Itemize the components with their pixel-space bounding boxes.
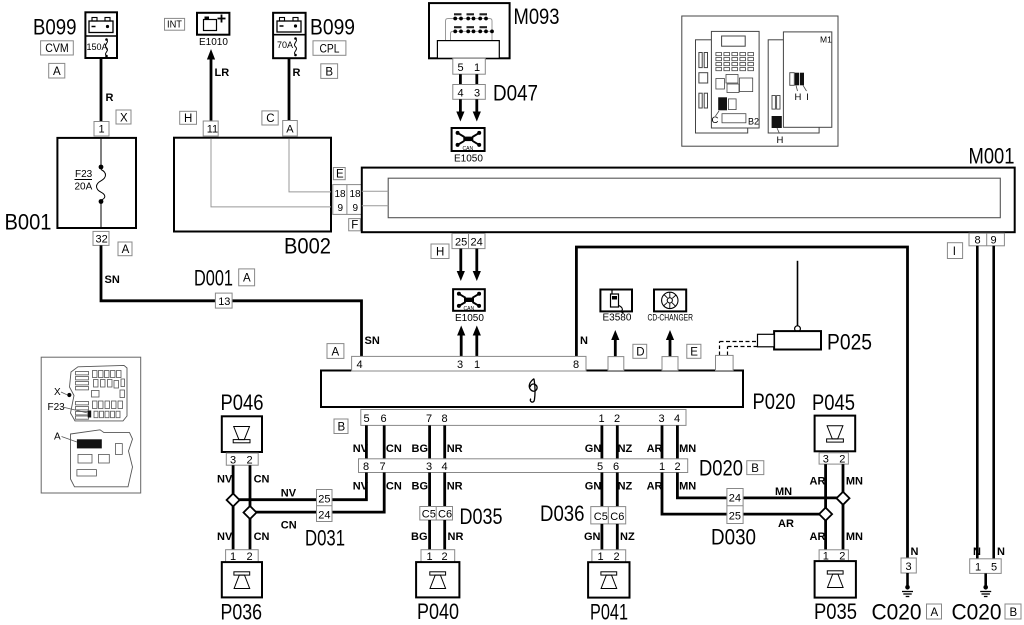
svg-text:CAN: CAN: [464, 306, 475, 312]
svg-text:20A: 20A: [75, 182, 93, 193]
svg-text:B2: B2: [748, 117, 759, 127]
svg-text:R: R: [293, 67, 301, 79]
svg-text:5: 5: [364, 413, 370, 425]
wire GN (D020 to C5): [601, 473, 604, 507]
svg-text:E1050: E1050: [454, 154, 483, 165]
pins 3/2 (P045): [819, 453, 848, 466]
wire NZ (D020 to C6): [616, 473, 619, 507]
battery B099 (CVM): [85, 12, 117, 58]
svg-text:N: N: [911, 546, 919, 558]
svg-text:5: 5: [458, 62, 464, 74]
label box INT: [165, 18, 185, 30]
label box C: [262, 111, 278, 125]
svg-text:GN: GN: [584, 531, 601, 543]
CD-CHANGER icon: [648, 290, 694, 324]
wire NZ (P020 B2 to D020 6): [616, 425, 619, 458]
wire BG (D020 to C5): [428, 473, 431, 507]
svg-text:70A: 70A: [277, 40, 293, 50]
svg-text:C6: C6: [610, 511, 624, 523]
P020 connector B row: [361, 410, 686, 426]
pin A (B002): [283, 121, 298, 137]
svg-text:CN: CN: [254, 531, 270, 543]
svg-text:C: C: [712, 115, 719, 126]
svg-text:AR: AR: [647, 481, 663, 493]
svg-text:3: 3: [230, 454, 236, 466]
label box CPL: [313, 41, 346, 56]
pin 32 (B001): [93, 231, 109, 245]
wire CN (P046 to P036): [249, 465, 252, 550]
svg-text:18: 18: [350, 189, 362, 200]
svg-text:H: H: [795, 92, 802, 103]
label box X: [116, 110, 131, 124]
wire MN (P020 B4 to D020 2): [676, 425, 679, 458]
svg-text:C5: C5: [594, 511, 608, 523]
P020 connector A row: [352, 356, 586, 371]
wire arrow M001 to E1050: [473, 249, 481, 281]
svg-text:SN: SN: [365, 335, 380, 347]
svg-text:AR: AR: [647, 443, 663, 455]
svg-text:N: N: [997, 546, 1005, 558]
svg-text:32: 32: [96, 234, 108, 246]
svg-text:4: 4: [674, 413, 680, 425]
svg-text:NV: NV: [353, 443, 369, 455]
wire (1 to 3): [475, 74, 478, 84]
svg-text:CVM: CVM: [45, 43, 68, 55]
label box D: [633, 344, 647, 358]
svg-text:INT: INT: [167, 20, 182, 31]
svg-text:MN: MN: [775, 486, 792, 498]
wire arrow P020 to E1050: [457, 326, 465, 357]
svg-text:3: 3: [823, 453, 829, 465]
label box F: [349, 219, 361, 232]
svg-text:B001: B001: [5, 210, 52, 235]
svg-text:AR: AR: [778, 518, 794, 530]
pins 8/9 (M001 right): [969, 233, 1004, 246]
svg-text:D020: D020: [699, 456, 743, 481]
svg-text:R: R: [106, 92, 114, 104]
location inset (dashboard): [682, 16, 838, 146]
wire arrow to E3580: [611, 330, 619, 357]
wire NR (C6 to P040): [443, 520, 446, 550]
svg-text:AR: AR: [810, 531, 826, 543]
svg-text:M001: M001: [969, 144, 1015, 169]
svg-text:B: B: [751, 463, 759, 475]
ECU B002: [174, 138, 331, 232]
wire SN: [101, 245, 362, 356]
svg-text:2: 2: [614, 551, 620, 563]
svg-text:9: 9: [991, 235, 997, 247]
svg-text:H: H: [184, 113, 192, 125]
svg-text:P025: P025: [827, 330, 872, 355]
wire arrow M001 to E1050: [457, 249, 465, 281]
svg-text:D001: D001: [194, 266, 233, 291]
radio P020: [321, 371, 743, 408]
svg-text:MN: MN: [846, 476, 863, 488]
svg-text:H: H: [436, 247, 444, 259]
svg-text:B099: B099: [33, 15, 77, 40]
connector D036 C5/C6: [591, 507, 626, 524]
wire NR (D020 to C6): [443, 473, 446, 507]
svg-text:25: 25: [455, 236, 467, 248]
svg-text:E1010: E1010: [199, 37, 228, 48]
svg-text:M1: M1: [820, 35, 832, 45]
svg-text:H: H: [777, 135, 784, 146]
connector strip D020: [359, 459, 688, 473]
svg-text:E1050: E1050: [455, 313, 484, 324]
ECU M001: [362, 168, 1015, 233]
wire AR (D020 to junction): [662, 473, 826, 515]
svg-text:A: A: [332, 346, 340, 358]
svg-text:5: 5: [991, 561, 997, 573]
pin 11 (B002): [203, 121, 218, 136]
svg-text:B: B: [338, 422, 346, 434]
svg-text:8: 8: [975, 235, 981, 247]
svg-text:X: X: [120, 112, 128, 124]
pins 1/2 (P036): [226, 550, 259, 563]
connector D047 pins 4/3: [453, 85, 486, 100]
pins 1/2 (P040): [421, 550, 455, 563]
svg-text:24: 24: [318, 509, 330, 521]
svg-text:SN: SN: [105, 274, 120, 286]
svg-text:MN: MN: [679, 443, 696, 455]
svg-text:I: I: [806, 92, 809, 103]
svg-text:3: 3: [457, 359, 463, 371]
fusebox B001: [57, 138, 136, 228]
svg-text:P020: P020: [753, 389, 796, 414]
label box A (near P020 pin 4): [327, 344, 344, 359]
label box CVM: [41, 41, 74, 55]
wire AR (P045 to P035): [824, 464, 827, 550]
svg-text:2: 2: [675, 461, 681, 473]
label box E: [333, 168, 345, 181]
svg-text:NV: NV: [217, 531, 233, 543]
svg-text:9: 9: [338, 203, 344, 214]
svg-text:A: A: [243, 273, 251, 285]
junction (AR): [819, 508, 832, 521]
label box A: [239, 269, 255, 286]
svg-text:D036: D036: [540, 501, 585, 526]
svg-text:BG: BG: [412, 481, 429, 493]
svg-text:M093: M093: [514, 4, 560, 29]
svg-text:4: 4: [458, 87, 464, 99]
connector D030 pins 24/25: [727, 489, 743, 524]
svg-text:N: N: [973, 546, 981, 558]
svg-text:AR: AR: [810, 476, 826, 488]
svg-text:6: 6: [613, 461, 619, 473]
svg-text:NV: NV: [281, 487, 297, 499]
svg-text:GN: GN: [585, 481, 602, 493]
svg-text:B: B: [325, 66, 333, 78]
svg-text:24: 24: [471, 236, 483, 248]
svg-text:E3580: E3580: [603, 313, 632, 324]
svg-text:18: 18: [335, 189, 347, 200]
svg-text:CAN: CAN: [463, 146, 474, 152]
wire labels row1: [353, 443, 697, 455]
wire CN (P020 B6 to D020 7): [383, 425, 386, 458]
connector M093: [429, 3, 510, 58]
svg-text:2: 2: [614, 413, 620, 425]
svg-text:BG: BG: [412, 443, 429, 455]
wire MN (P045 to P035): [842, 464, 845, 550]
ground point E1010: [197, 13, 229, 48]
pin 1 (B001): [94, 122, 109, 137]
svg-text:150A: 150A: [87, 42, 108, 52]
svg-text:CD-CHANGER: CD-CHANGER: [648, 313, 694, 324]
svg-text:8: 8: [573, 359, 579, 371]
pins 1/2 (P041): [592, 550, 626, 563]
svg-text:3: 3: [906, 561, 912, 573]
svg-text:C020: C020: [872, 600, 922, 625]
svg-text:D: D: [636, 347, 644, 359]
svg-text:4: 4: [442, 461, 448, 473]
svg-text:8: 8: [442, 413, 448, 425]
svg-text:13: 13: [218, 296, 230, 308]
svg-text:NV: NV: [217, 474, 233, 486]
wire N (P020 pin8 to C020 A): [576, 247, 907, 558]
speaker P041: [588, 562, 629, 597]
svg-text:X: X: [54, 387, 61, 398]
svg-text:E: E: [336, 169, 344, 181]
svg-text:NR: NR: [447, 481, 463, 493]
junction (CN): [244, 506, 257, 519]
speaker P035: [815, 561, 856, 598]
wire arrow to E1050: [473, 99, 481, 121]
svg-text:NR: NR: [447, 443, 463, 455]
svg-text:CPL: CPL: [320, 43, 341, 55]
location inset (fusebox): [41, 357, 141, 493]
tweeter P045: [815, 416, 856, 452]
svg-text:1: 1: [99, 124, 105, 136]
svg-text:MN: MN: [846, 531, 863, 543]
svg-text:25: 25: [318, 493, 330, 505]
wire NZ (C6 to P041): [616, 524, 619, 550]
svg-text:B: B: [1010, 607, 1018, 619]
wire (M001 pin8 to C020 B pin1): [976, 246, 979, 559]
svg-text:7: 7: [426, 413, 432, 425]
svg-text:D047: D047: [493, 81, 538, 106]
wire GN (C5 to P041): [601, 524, 604, 550]
wire NV (P020 B5 to D020 8): [365, 425, 368, 458]
pins 3/2 (P046): [226, 453, 258, 466]
svg-text:NZ: NZ: [618, 443, 633, 455]
svg-text:1: 1: [598, 551, 604, 563]
label box B: [321, 64, 338, 79]
pins 5/1 (M093): [453, 58, 486, 74]
svg-text:A: A: [122, 244, 130, 256]
svg-text:P040: P040: [417, 599, 459, 624]
svg-text:B099: B099: [310, 15, 355, 40]
label box B: [334, 419, 348, 434]
wire (5 to 4): [459, 74, 462, 84]
svg-text:P045: P045: [812, 390, 855, 415]
label box E: [687, 344, 701, 358]
svg-text:3: 3: [474, 87, 480, 99]
svg-text:2: 2: [839, 453, 845, 465]
svg-text:1: 1: [975, 561, 981, 573]
wire (M001 pin9 to C020 B pin5): [992, 246, 995, 559]
svg-text:CN: CN: [386, 481, 402, 493]
svg-text:A: A: [931, 607, 939, 619]
svg-text:C020: C020: [952, 600, 1002, 625]
speaker P036: [222, 562, 262, 597]
svg-text:CN: CN: [254, 474, 270, 486]
connector D031 pins 25/24: [317, 490, 333, 522]
wire R: [288, 58, 291, 120]
wire arrow P020 to E1050: [473, 326, 481, 357]
svg-text:CN: CN: [386, 443, 402, 455]
svg-text:D035: D035: [460, 504, 503, 529]
label box A: [118, 242, 132, 256]
connector D035 C5/C6: [420, 507, 453, 521]
pins 25/24 (M001): [452, 234, 485, 249]
svg-text:8: 8: [363, 461, 369, 473]
svg-text:D030: D030: [711, 525, 756, 550]
svg-text:3: 3: [426, 461, 432, 473]
svg-text:I: I: [953, 246, 956, 258]
svg-text:11: 11: [207, 124, 218, 136]
P020 stub D: [608, 357, 624, 371]
svg-text:C6: C6: [438, 508, 452, 520]
svg-text:P046: P046: [221, 390, 264, 415]
label box H: [180, 111, 197, 125]
CAN node E1050 (middle): [453, 289, 485, 324]
label box I: [947, 243, 962, 259]
wire NV (P046 to P036): [232, 465, 235, 550]
svg-text:3: 3: [659, 413, 665, 425]
wire R: [100, 58, 103, 122]
wire arrow to E1050: [456, 99, 464, 121]
svg-text:F: F: [351, 220, 358, 232]
svg-text:C5: C5: [422, 508, 436, 520]
wire LR with arrow to E1010: [210, 58, 213, 121]
svg-text:A: A: [53, 66, 61, 78]
svg-text:D031: D031: [305, 526, 345, 551]
svg-text:BG: BG: [411, 531, 428, 543]
svg-text:9: 9: [353, 203, 359, 214]
svg-text:MN: MN: [679, 481, 696, 493]
svg-text:24: 24: [729, 493, 741, 505]
svg-text:P041: P041: [590, 600, 628, 625]
svg-text:1: 1: [474, 62, 480, 74]
svg-text:NR: NR: [448, 531, 464, 543]
svg-text:NZ: NZ: [618, 481, 633, 493]
phone module E3580: [600, 290, 632, 324]
ground C020 A: [901, 558, 916, 597]
svg-text:1: 1: [474, 359, 480, 371]
svg-text:F23: F23: [48, 402, 66, 413]
wire GN (P020 B1 to D020 5): [601, 425, 604, 458]
ground C020 B: [970, 559, 1002, 597]
label box B: [747, 461, 764, 475]
wire NV to D031: [233, 473, 366, 500]
svg-text:LR: LR: [215, 67, 230, 79]
wire CN to D031: [250, 473, 384, 513]
svg-text:F23: F23: [75, 169, 93, 180]
pins 18/9 (B002 to M001): [333, 185, 362, 215]
svg-text:NZ: NZ: [620, 531, 635, 543]
tweeter P046: [222, 416, 262, 452]
svg-text:6: 6: [381, 413, 387, 425]
label box A: [49, 63, 65, 78]
svg-text:GN: GN: [585, 443, 602, 455]
svg-text:25: 25: [729, 510, 741, 522]
svg-text:A: A: [54, 432, 61, 443]
wire NR (P020 B8 to D020 4): [443, 425, 446, 458]
wire MN (D020 to junction): [677, 473, 843, 498]
P020 stub antenna: [716, 355, 734, 370]
svg-text:B002: B002: [284, 234, 331, 259]
svg-text:A: A: [286, 124, 294, 136]
svg-text:7: 7: [380, 461, 386, 473]
antenna P025: [720, 261, 822, 355]
junction (NV): [227, 494, 240, 507]
svg-text:2: 2: [247, 454, 253, 466]
wire BG (P020 B7 to D020 3): [428, 425, 431, 458]
battery B099 (CPL): [273, 13, 306, 58]
svg-text:CN: CN: [281, 520, 297, 532]
svg-text:5: 5: [597, 461, 603, 473]
wire labels row2: [353, 481, 697, 493]
svg-text:P035: P035: [814, 599, 857, 624]
wire arrow to CD-CHANGER: [666, 330, 674, 357]
wire AR (P020 B3 to D020 1): [661, 425, 664, 458]
svg-text:C: C: [266, 113, 274, 125]
connector D001 pin 13: [215, 293, 232, 308]
svg-text:E: E: [690, 347, 698, 359]
svg-text:P036: P036: [221, 600, 263, 625]
label box A: [927, 604, 942, 619]
svg-text:1: 1: [599, 413, 605, 425]
junction (MN): [837, 492, 850, 505]
label box H: [431, 244, 449, 259]
pins 1/2 (P035): [819, 550, 848, 563]
speaker P040: [416, 562, 459, 597]
svg-text:4: 4: [357, 359, 363, 371]
svg-text:1: 1: [659, 461, 665, 473]
svg-text:N: N: [580, 335, 588, 347]
label box B: [1005, 604, 1021, 619]
CAN node E1050 (top): [452, 128, 485, 165]
wire BG (C5 to P040): [428, 520, 431, 550]
P020 stub E: [662, 357, 678, 371]
